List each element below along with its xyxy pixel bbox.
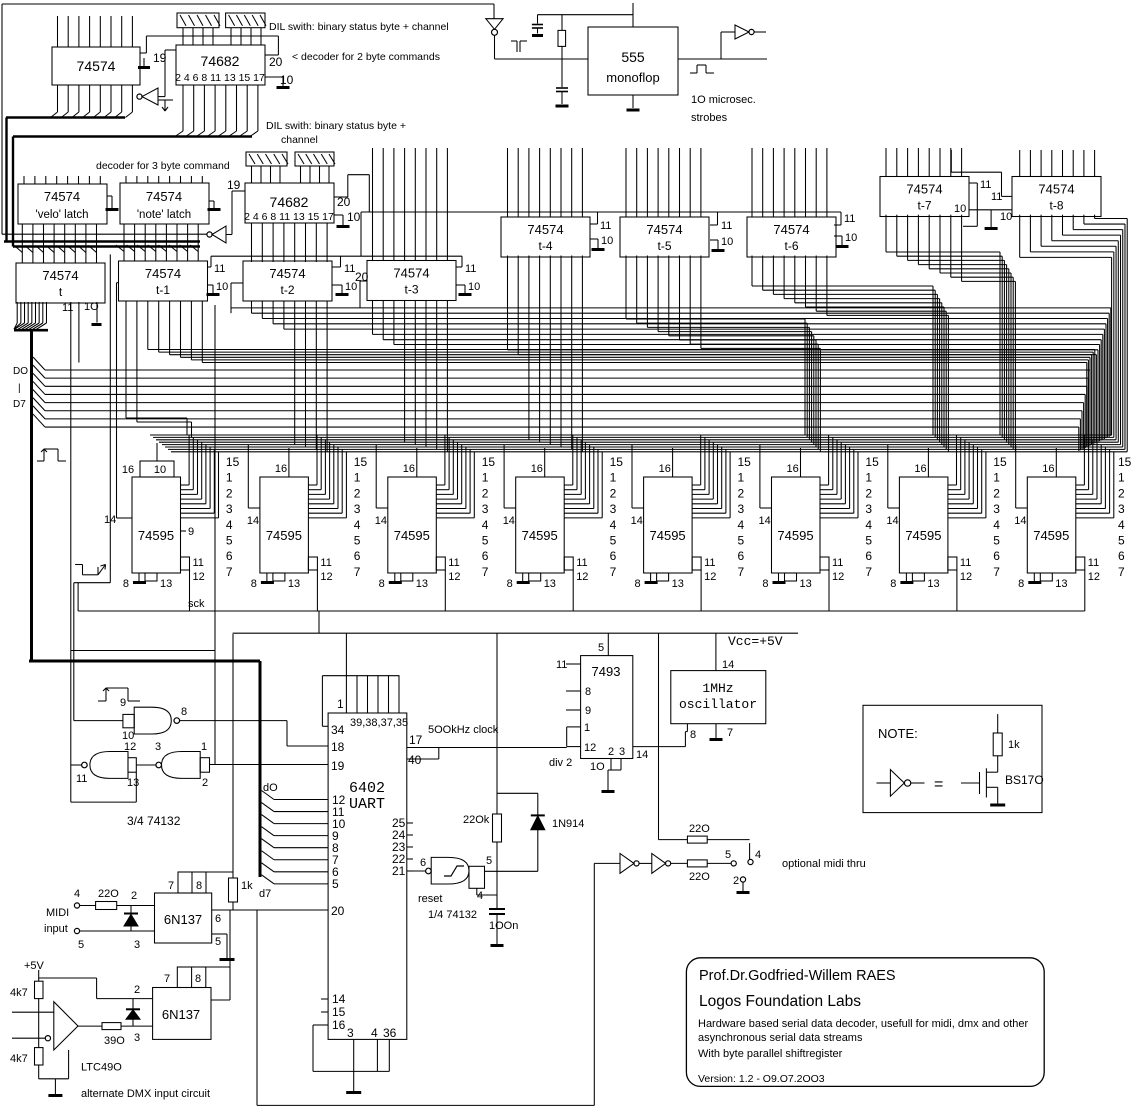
svg-text:2: 2: [354, 486, 361, 500]
svg-text:8: 8: [634, 578, 640, 590]
t-2 pin 11 tap: [340, 256, 342, 267]
oscillator 1MHz: [671, 671, 766, 724]
clock rail for t-4 t-5 t-6: [361, 211, 841, 213]
latch t-6 74574: [747, 217, 836, 257]
svg-text:19: 19: [153, 51, 167, 65]
upper routing lines from latch columns: [231, 307, 1111, 309]
svg-text:12: 12: [193, 571, 205, 583]
svg-text:5: 5: [598, 642, 604, 654]
t-7 pin 11 wire: [970, 182, 978, 184]
svg-text:5: 5: [738, 534, 745, 548]
inverter on 555 trigger line: [493, 4, 495, 19]
svg-text:10: 10: [216, 281, 228, 293]
svg-text:10: 10: [468, 281, 480, 293]
svg-text:8: 8: [123, 578, 129, 590]
svg-text:8: 8: [585, 686, 591, 698]
rising edge icon near SR1: [37, 460, 44, 462]
wire 390 to U10 pin 3: [121, 1025, 153, 1027]
svg-text:2: 2: [865, 486, 872, 500]
svg-text:2: 2: [226, 486, 233, 500]
svg-text:74574: 74574: [1038, 182, 1074, 197]
svg-text:8: 8: [196, 880, 202, 892]
SR3 pin 11 12 stub: [436, 557, 445, 570]
t-3 pin 11 tap: [461, 256, 463, 267]
svg-text:2: 2: [993, 486, 1000, 500]
svg-text:6N137: 6N137: [164, 912, 202, 927]
svg-text:18: 18: [331, 740, 345, 754]
wire t pin11 down to sck: [109, 254, 111, 582]
SR2 pin 11 12 stub: [308, 557, 317, 570]
velo outputs into latch t inputs: [21, 224, 23, 263]
bus D0-D7 fan from thick line: [33, 357, 45, 370]
svg-text:12: 12: [704, 571, 716, 583]
latch U1 74574 top-left: [52, 47, 140, 85]
pullup resistor 1k: [229, 878, 238, 902]
svg-text:DIL swith: binary status byte: DIL swith: binary status byte +: [266, 120, 406, 132]
svg-text:7: 7: [482, 565, 489, 579]
U9 output pin 6 to UART pin 20: [212, 909, 328, 911]
U9 pins 7 8 bracket: [178, 872, 206, 893]
wire U9 output down to bottom rail: [256, 910, 258, 1105]
latch U4 74574 velo: [18, 184, 107, 224]
strobe pulse icon: [690, 72, 697, 74]
svg-text:6: 6: [993, 549, 1000, 563]
svg-text:10: 10: [721, 236, 733, 248]
schmitt gate reset 74132: [426, 868, 432, 874]
UART top comb pins 39 38 37 35: [321, 676, 323, 727]
svg-text:16: 16: [122, 464, 134, 476]
line receiver LTC490: [38, 999, 40, 1013]
DIL switch S1a: [177, 13, 219, 28]
thick bus velo to t: [4, 240, 200, 242]
U10 output wire: [229, 910, 231, 1000]
svg-text:15: 15: [482, 455, 496, 469]
title box frame: [686, 958, 1044, 1087]
svg-text:D7: D7: [13, 399, 26, 410]
MIDI input terminal 5: [74, 928, 79, 933]
svg-text:2: 2: [610, 486, 617, 500]
4k7 ground: [38, 1065, 40, 1079]
DIL switch S2b: [295, 152, 334, 166]
svg-text:7: 7: [168, 880, 174, 892]
svg-text:5: 5: [993, 534, 1000, 548]
svg-text:10: 10: [954, 203, 966, 215]
latch t-3 74574: [367, 261, 456, 301]
svg-text:12: 12: [832, 571, 844, 583]
rising edge icon above N1: [98, 700, 106, 702]
svg-text:8: 8: [195, 973, 201, 985]
midi thru inverter B: [639, 862, 652, 864]
svg-text:74595: 74595: [394, 528, 430, 543]
wire t-1 left pin to SR1 serial input: [116, 283, 118, 518]
svg-text:2: 2: [482, 486, 489, 500]
svg-text:13: 13: [127, 777, 139, 789]
DIL switch S2a: [246, 152, 287, 166]
svg-text:15: 15: [1118, 455, 1132, 469]
svg-text:asynchronous serial data strea: asynchronous serial data streams: [698, 1032, 863, 1044]
SR5 pin 14 wire: [631, 445, 633, 508]
svg-text:reset: reset: [418, 893, 442, 905]
shift register SR6 74595: [772, 477, 821, 573]
latch U5 74574 note: [120, 183, 209, 224]
resistor 220 midi: [80, 905, 96, 907]
svg-text:t-6: t-6: [784, 239, 798, 253]
t-5 output fan to chip6 column: [625, 256, 627, 320]
t-8 pin 11 wire: [950, 150, 952, 172]
svg-text:t-3: t-3: [404, 283, 418, 297]
svg-text:1k: 1k: [1008, 739, 1020, 751]
SR5 pin 11 12 stub: [692, 557, 701, 570]
svg-text:14: 14: [247, 515, 259, 527]
svg-text:3: 3: [993, 502, 1000, 516]
diode dmx input: [132, 999, 134, 1009]
svg-text:2 4 6 8 11 13 15 17: 2 4 6 8 11 13 15 17: [175, 72, 265, 84]
svg-text:4: 4: [371, 1026, 378, 1040]
svg-text:7: 7: [865, 565, 872, 579]
svg-text:74574: 74574: [44, 189, 80, 204]
svg-text:74574: 74574: [146, 189, 182, 204]
svg-text:12: 12: [1088, 571, 1100, 583]
svg-text:4: 4: [482, 518, 489, 532]
Vcc +5V rail: [233, 632, 798, 634]
wire to NAND feedback rail: [71, 650, 215, 652]
resistor 1k in note box: [993, 733, 1002, 756]
N2 to N3 wire: [136, 764, 156, 766]
shift register SR3 74595: [388, 477, 437, 573]
LTC490 output resistor 390: [78, 1025, 102, 1027]
svg-text:13: 13: [160, 578, 172, 590]
svg-text:3: 3: [226, 502, 233, 516]
svg-text:4: 4: [1118, 518, 1125, 532]
t-1 pin 10 ground: [208, 284, 214, 286]
svg-text:8: 8: [181, 706, 187, 718]
resistor 4k7 lower: [38, 1012, 40, 1047]
SR7 pin 11 12 stub: [948, 557, 957, 570]
inverter to U6 pin 19: [212, 226, 226, 243]
comparator U2 74682 top-left: [176, 45, 265, 85]
N3 output to UART pin 19: [210, 764, 329, 766]
svg-text:16: 16: [659, 463, 671, 475]
7493 left stubs: [566, 663, 581, 665]
t-4 pin 11 tap: [597, 212, 599, 224]
top stubs above t-7: [885, 148, 887, 177]
svg-text:8: 8: [690, 729, 696, 741]
svg-text:15: 15: [610, 455, 624, 469]
wire terminal to U9 pin 3: [80, 930, 155, 932]
svg-text:3: 3: [354, 502, 361, 516]
svg-text:22O: 22O: [98, 888, 119, 900]
svg-text:4: 4: [610, 518, 617, 532]
svg-text:11: 11: [704, 557, 715, 569]
SR4 pin 11 12 stub: [564, 557, 573, 570]
svg-text:5: 5: [610, 534, 617, 548]
svg-text:19: 19: [227, 178, 241, 192]
SR1 pin 14 wire: [117, 517, 133, 519]
svg-text:d7: d7: [259, 888, 271, 900]
SR3 output fan: [436, 484, 445, 486]
svg-text:22Ok: 22Ok: [463, 814, 490, 826]
latch t-2 74574: [243, 261, 332, 301]
svg-text:10: 10: [154, 464, 166, 476]
terminal 5: [731, 861, 736, 866]
svg-text:3/4 74132: 3/4 74132: [127, 814, 181, 828]
t-4 pin 10 ground: [590, 238, 598, 240]
svg-text:11: 11: [320, 557, 331, 569]
svg-text:6: 6: [482, 549, 489, 563]
SR6 pin 11 12 stub: [820, 557, 829, 570]
svg-text:12: 12: [320, 571, 332, 583]
SR3 pin 14 wire: [375, 445, 377, 508]
svg-text:13: 13: [927, 578, 939, 590]
svg-text:6: 6: [738, 549, 745, 563]
svg-text:20: 20: [269, 55, 283, 69]
svg-text:34: 34: [331, 723, 345, 737]
svg-text:39O: 39O: [104, 1035, 125, 1047]
svg-text:14: 14: [636, 749, 648, 761]
N2 feedback loop: [70, 651, 72, 803]
svg-text:16: 16: [1042, 463, 1054, 475]
svg-text:11: 11: [344, 263, 355, 275]
7493 pin 5 to vcc: [607, 633, 609, 655]
svg-text:NOTE:: NOTE:: [878, 726, 918, 741]
svg-text:2: 2: [131, 890, 137, 902]
svg-text:74574: 74574: [527, 222, 563, 237]
shift register SR1 74595: [132, 477, 181, 573]
N2 output wire: [71, 764, 82, 766]
svg-text:12: 12: [124, 741, 136, 753]
svg-text:5: 5: [215, 936, 221, 948]
svg-text:5: 5: [482, 534, 489, 548]
svg-text:555: 555: [621, 49, 645, 65]
NAND gate N3 74132: [162, 752, 201, 779]
svg-text:11: 11: [465, 263, 476, 275]
svg-text:22O: 22O: [689, 871, 710, 883]
svg-text:10: 10: [601, 235, 613, 247]
svg-text:14: 14: [631, 515, 643, 527]
svg-text:74574: 74574: [42, 268, 78, 283]
t-8 output fan to right bundle: [1019, 215, 1021, 258]
S2 wires to U6: [251, 166, 253, 183]
N1 input wire: [74, 720, 123, 722]
latch t-7 74574: [880, 177, 969, 217]
gate pin 4 wire: [476, 888, 478, 895]
SR3 pin 8 13 ground: [394, 573, 396, 581]
U10 pins 7 8 bracket: [177, 967, 206, 988]
svg-text:74574: 74574: [393, 266, 429, 281]
DIL switch S1b: [226, 13, 265, 28]
output inverter at 555: [721, 31, 735, 33]
svg-text:20: 20: [355, 270, 369, 284]
transistor BS170: [961, 782, 980, 784]
svg-text:1: 1: [865, 471, 872, 485]
svg-text:74682: 74682: [270, 194, 309, 210]
svg-text:21: 21: [392, 864, 406, 878]
oscillator pin 7 ground: [715, 724, 717, 738]
U1 top input pins: [57, 16, 59, 47]
svg-text:14: 14: [886, 515, 898, 527]
svg-text:sck: sck: [188, 598, 205, 610]
svg-text:4: 4: [354, 518, 361, 532]
svg-text:2: 2: [608, 746, 614, 758]
SR1 output fan: [181, 484, 190, 486]
SR6 pin 8 13 ground: [778, 573, 780, 581]
svg-text:2: 2: [202, 777, 208, 789]
svg-text:22O: 22O: [689, 823, 710, 835]
wire trigger to 555: [562, 58, 588, 60]
SR1 pin 11 12 stub: [181, 557, 190, 570]
svg-text:14: 14: [722, 659, 734, 671]
svg-text:16: 16: [531, 463, 543, 475]
t-2 pin 10 ground: [332, 284, 342, 286]
svg-text:10: 10: [280, 73, 294, 87]
svg-text:Hardware based serial data dec: Hardware based serial data decoder, usef…: [698, 1018, 1029, 1030]
terminal 4: [749, 843, 751, 859]
wire C1 to 555 vcc pin: [538, 14, 634, 16]
svg-text:13: 13: [800, 578, 812, 590]
falling edge pulse icon: [158, 99, 165, 101]
7493 pin 1 12 bracket div2: [567, 726, 581, 728]
shift register SR7 74595: [899, 477, 948, 573]
SR2 pin 14 wire: [247, 445, 249, 508]
U4 clock stub ground: [107, 195, 112, 197]
capacitor C2 at 555: [561, 59, 563, 87]
svg-text:1: 1: [1118, 471, 1125, 485]
svg-text:t-5: t-5: [657, 239, 671, 253]
thick data line to UART: [29, 660, 260, 663]
svg-text:74574: 74574: [269, 266, 305, 281]
shift register output bundle: [150, 434, 1112, 436]
t-2 output column: [251, 301, 253, 313]
svg-text:74595: 74595: [138, 528, 174, 543]
svg-text:4k7: 4k7: [10, 987, 28, 999]
S1 wires to U2: [182, 28, 184, 45]
t-6 output fan to chip7 column: [751, 256, 753, 287]
SR7 output fan: [948, 484, 957, 486]
SR2 pin 8 13 ground: [266, 573, 268, 581]
svg-text:9: 9: [585, 705, 591, 717]
svg-text:5: 5: [725, 849, 731, 861]
U1 bottom output fan to data bus: [57, 85, 59, 112]
svg-text:12: 12: [576, 571, 588, 583]
top stubs above t-5: [625, 148, 627, 217]
MIDI input terminal 4: [74, 903, 79, 908]
svg-text:1N914: 1N914: [552, 818, 584, 830]
svg-text:9: 9: [120, 697, 126, 709]
serial clock line sck: [77, 583, 79, 611]
svg-text:6: 6: [215, 913, 221, 925]
latch t output fan D0-D7: [16, 302, 18, 323]
svg-text:12: 12: [448, 571, 460, 583]
resistor 4k7 upper: [35, 981, 44, 998]
svg-text:13: 13: [416, 578, 428, 590]
svg-text:6N137: 6N137: [162, 1007, 200, 1022]
SR5 output fan: [692, 484, 701, 486]
SR8 pin 8 13 ground: [1033, 573, 1035, 581]
svg-text:div 2: div 2: [549, 757, 572, 769]
svg-text:14: 14: [375, 515, 387, 527]
svg-text:3: 3: [155, 741, 161, 753]
svg-text:16: 16: [914, 463, 926, 475]
svg-text:1: 1: [610, 471, 617, 485]
svg-text:15: 15: [993, 455, 1007, 469]
svg-text:74595: 74595: [522, 528, 558, 543]
svg-text:3: 3: [1118, 502, 1125, 516]
long wire to note inverter input: [2, 233, 207, 235]
NAND gate N1 74132: [123, 714, 134, 727]
svg-text:12: 12: [584, 742, 596, 754]
SR2 output fan: [308, 484, 317, 486]
top stubs above t-6: [751, 148, 753, 217]
svg-text:3: 3: [738, 502, 745, 516]
t-3 output column: [372, 301, 374, 335]
svg-text:2: 2: [733, 875, 739, 887]
shift register SR5 74595: [644, 477, 693, 573]
svg-text:'velo' latch: 'velo' latch: [36, 209, 89, 221]
svg-text:channel: channel: [281, 134, 318, 146]
svg-text:74574: 74574: [77, 58, 116, 74]
diode 1N914: [537, 830, 539, 872]
svg-text:11: 11: [980, 179, 991, 191]
U2 bottom output fan: [182, 85, 184, 131]
svg-text:13: 13: [288, 578, 300, 590]
svg-text:5: 5: [486, 855, 492, 867]
svg-text:5: 5: [865, 534, 872, 548]
svg-text:8: 8: [1018, 578, 1024, 590]
t-5 pin 11 tap: [717, 212, 719, 225]
svg-text:t-1: t-1: [156, 283, 170, 297]
svg-text:14: 14: [503, 515, 515, 527]
data bus thick line from U2: [13, 135, 252, 138]
wire top border to 555 trigger: [2, 3, 494, 5]
svg-text:3: 3: [610, 502, 617, 516]
svg-text:11: 11: [960, 557, 971, 569]
UART U7 6402: [328, 713, 407, 1039]
SR4 pin 8 13 ground: [522, 573, 524, 581]
right edge vertical bundle: [1111, 257, 1113, 435]
t-7 output fan to chip8 column: [885, 215, 887, 252]
svg-text:10: 10: [1000, 211, 1012, 223]
svg-text:6: 6: [865, 549, 872, 563]
svg-text:11: 11: [721, 220, 732, 232]
SR1 pin10 box: [140, 461, 174, 477]
svg-text:13: 13: [672, 578, 684, 590]
svg-text:2 4 6 8 11 13 15 17: 2 4 6 8 11 13 15 17: [244, 211, 334, 223]
svg-text:7: 7: [226, 565, 233, 579]
comparator U6 74682 row2: [245, 183, 334, 223]
top stubs above t-3: [372, 148, 374, 261]
svg-text:7: 7: [354, 565, 361, 579]
svg-text:11: 11: [844, 213, 855, 225]
svg-text:14: 14: [104, 514, 116, 526]
svg-text:11: 11: [76, 773, 87, 785]
svg-text:4: 4: [477, 890, 483, 902]
svg-text:74595: 74595: [905, 528, 941, 543]
svg-text:6: 6: [226, 549, 233, 563]
U5 pin 10 ground: [209, 200, 214, 202]
thick bus note to t-1: [13, 245, 200, 247]
svg-text:1k: 1k: [241, 880, 253, 892]
svg-text:20: 20: [337, 195, 351, 209]
svg-text:6: 6: [420, 857, 426, 869]
svg-text:7: 7: [993, 565, 1000, 579]
midi thru inverter A: [594, 862, 620, 864]
diode midi input: [130, 906, 132, 914]
oscillator pin 14 to vcc: [715, 633, 717, 670]
gate output wire: [485, 870, 538, 872]
svg-text:1: 1: [354, 471, 361, 485]
svg-text:2: 2: [134, 984, 140, 996]
svg-text:16: 16: [787, 463, 799, 475]
